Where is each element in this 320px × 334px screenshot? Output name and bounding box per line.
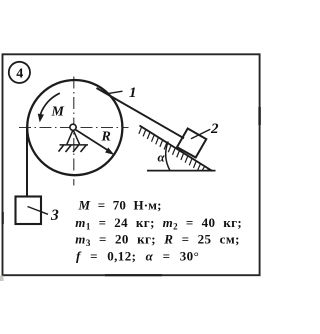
radius arrow R: [75, 129, 114, 154]
pulley circle: [27, 80, 122, 175]
svg-text:m1 = 24 кг; m2 = 40 кг;: m1 = 24 кг; m2 = 40 кг;: [75, 215, 242, 232]
angle alpha arc: [166, 142, 170, 171]
given data text: [75, 197, 242, 263]
incline surface: [140, 126, 213, 172]
block 2 on incline: [177, 129, 206, 158]
svg-text:2: 2: [210, 121, 219, 137]
svg-text:M = 70 Н·м;: M = 70 Н·м;: [78, 197, 162, 212]
svg-text:3: 3: [50, 207, 59, 224]
rope to incline: [97, 88, 185, 138]
svg-text:f = 0,12; α = 30°: f = 0,12; α = 30°: [76, 249, 199, 264]
frame thick segment left: [2, 212, 4, 224]
centerline vertical: [73, 77, 75, 186]
centerline horizontal: [19, 127, 129, 129]
svg-text:M: M: [51, 105, 65, 120]
ground base line: [147, 170, 216, 172]
svg-text:4: 4: [16, 66, 23, 81]
hanging block 3: [16, 197, 42, 225]
frame border: [3, 54, 260, 275]
leader line for label 2: [191, 129, 210, 139]
support triangle: [60, 130, 89, 145]
svg-text:m3 = 20 кг; R = 25 см;: m3 = 20 кг; R = 25 см;: [75, 232, 240, 249]
svg-text:α: α: [158, 150, 166, 165]
figure number circle 4: [9, 62, 30, 83]
leader line for label 1: [108, 91, 123, 93]
incline hatching: [139, 127, 209, 171]
frame thick segment bottom: [105, 274, 162, 276]
svg-text:1: 1: [129, 85, 137, 101]
support hatching: [59, 145, 87, 152]
frame thick segment right: [258, 107, 260, 125]
pivot circle: [70, 124, 76, 130]
leader line for label 3: [28, 207, 49, 215]
rope to hanging block: [26, 128, 28, 198]
svg-text:R: R: [101, 130, 111, 145]
moment arc M: [38, 93, 59, 121]
